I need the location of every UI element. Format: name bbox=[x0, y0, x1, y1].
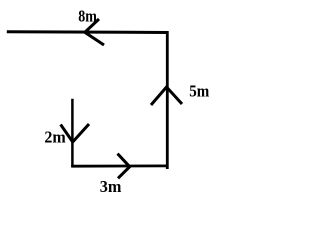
wire: top horizontal 8m segment bbox=[7, 30, 169, 34]
wire: left vertical 2m segment bbox=[71, 99, 74, 167]
svg-text:2m: 2m bbox=[44, 127, 65, 146]
wire: right vertical 5m segment bbox=[166, 31, 169, 169]
svg-text:8m: 8m bbox=[78, 7, 97, 26]
arrowhead pointing up on 5m segment bbox=[151, 87, 182, 105]
svg-text:5m: 5m bbox=[189, 81, 209, 100]
wire: bottom horizontal 3m segment bbox=[71, 164, 168, 167]
svg-text:3m: 3m bbox=[100, 177, 122, 196]
arrowhead pointing left on 8m segment bbox=[85, 19, 104, 45]
arrowhead pointing down on 2m segment bbox=[61, 124, 89, 142]
arrowhead pointing right on 3m segment bbox=[118, 154, 130, 179]
